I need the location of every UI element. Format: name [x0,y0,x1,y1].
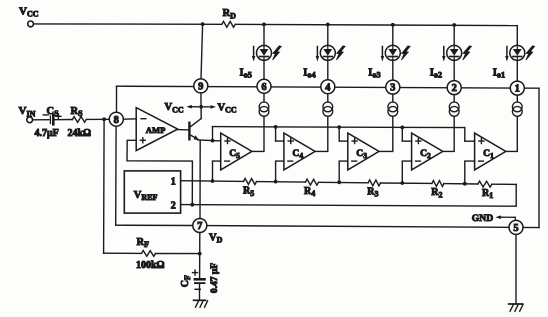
label Io3 [368,67,380,79]
LED D4 [320,45,335,60]
wire signal to C2+ [401,127,403,141]
current source Io5 [259,102,269,116]
svg-text:C4: C4 [292,148,303,160]
wire LED1 to pin [516,60,518,81]
wire R5-R4 [257,181,306,184]
label C1 [483,148,494,160]
label Io1 [493,67,505,79]
wire C1- lead [465,161,475,184]
comparator C1 [475,133,506,170]
label Io4 [303,67,315,79]
label R4 [304,186,315,198]
label 0.47uF [210,263,220,293]
label VREF [134,190,158,202]
node rail LED5 branch [262,22,266,26]
label C5 [229,148,240,160]
svg-text:5: 5 [513,223,518,234]
ground CF [194,300,208,307]
resistor RD [222,21,235,27]
comparator C4 [284,133,315,170]
capacitor CF [195,279,205,283]
node signal C4+ [274,125,278,129]
svg-text:CF: CF [180,275,192,287]
label CF minus [195,288,200,290]
label R3 [367,186,378,198]
label Vcc left [165,102,184,114]
wire pin9 to collector [200,93,202,119]
wire rail to LED3 [392,25,394,46]
label 100k [136,260,165,271]
node emitter [211,139,215,143]
wire pin6 to source [263,93,265,102]
label CF plus [193,270,198,275]
label 4.7uF [35,128,59,139]
wire emitter node to pin7 [199,141,201,219]
node rail LED4 branch [326,23,330,27]
wire source to C3 output [379,116,393,151]
comparator C3 [348,133,379,170]
label C3 plus [352,139,357,144]
wire pin3 to source [392,94,394,102]
svg-text:RS: RS [71,106,84,118]
capacitor CS [50,115,53,124]
wire source to C4 output [315,116,328,151]
wire C2+ lead [402,140,411,142]
wire LED5 to pin [263,60,265,79]
wire to pin7 [116,224,193,226]
label RS [71,106,84,118]
LED4 light flash [336,46,345,60]
node rail-pin9 [201,22,205,26]
svg-text:VCC: VCC [165,102,184,114]
node signal C3+ [337,125,341,129]
wire Vin to Cs [33,119,49,121]
node signal C2+ [400,125,404,129]
label RD [223,8,237,20]
svg-text:AMP: AMP [146,125,166,135]
label Vcc right [218,102,237,114]
pin 1 [510,81,524,95]
comparator C2 [412,133,443,170]
wire Vcc rail left [34,23,222,25]
svg-text:VD: VD [209,232,223,244]
wire C1+ lead [465,140,475,142]
label C3 [356,148,367,160]
resistor R5 [244,179,257,185]
svg-text:24kΩ: 24kΩ [68,128,92,139]
LED2 light flash [463,46,472,60]
node input junction [102,117,106,121]
wire pins row [117,86,540,88]
wire R2-R1 [444,183,478,185]
label AMP plus [140,138,145,143]
label GND [472,213,493,224]
node ladder C1- [463,182,467,186]
label C5 minus [225,160,230,162]
label R5 [243,186,254,198]
wire R3-R2 [381,182,432,184]
node Vref2 feedback [190,203,194,207]
arrow LED5 current [252,47,255,62]
arrow Vcc right [204,105,216,109]
arrow GND [495,215,515,220]
svg-text:C5: C5 [229,148,240,160]
svg-text:2: 2 [452,83,457,94]
wire signal to C1+ [464,128,466,142]
comparator C5 [221,133,252,170]
Vcc label [19,6,39,19]
svg-text:Io3: Io3 [368,67,380,79]
wire pin7 to pin5 [207,226,509,228]
wire C3- lead [339,161,348,182]
label CF [180,275,192,287]
wire C2- lead [402,161,411,183]
resistor R3 [368,180,380,186]
svg-text:7: 7 [197,221,202,232]
svg-text:RF: RF [137,237,150,249]
voltage reference VREF [124,171,180,213]
label R2 [431,187,442,199]
arrow LED1 current [505,47,508,62]
pin 6 [257,79,271,93]
label Io5 [240,67,252,79]
svg-text:1: 1 [515,84,520,95]
svg-text:Io5: Io5 [240,67,252,79]
LED D5 [257,45,272,60]
wire pin5 right [523,226,539,228]
node ladder C3- [337,180,341,184]
wire rail to LED2 [453,25,455,45]
label R1 [482,188,493,200]
wire rail to LED5 [263,24,265,45]
label C5 plus [225,139,230,144]
svg-text:GND: GND [472,213,493,224]
arrow Vcc left [186,105,198,109]
label Vref pin2 [171,200,176,211]
svg-text:9: 9 [198,82,203,93]
svg-text:R1: R1 [482,188,493,200]
svg-text:3: 3 [390,83,395,94]
wire pin8 riser [116,86,118,112]
label AMP minus [141,118,146,120]
label Io2 [430,67,442,79]
LED5 light flash [273,46,282,60]
LED D1 [510,45,525,60]
LED D2 [447,45,462,60]
svg-text:R2: R2 [431,187,442,199]
label C4 minus [288,160,293,162]
svg-text:C1: C1 [483,148,494,160]
transistor Q1 [189,119,201,141]
label C4 [292,148,303,160]
pin 9 [194,79,208,93]
wire signal to C4+ [275,127,277,141]
pin 8 [109,112,123,126]
label C2 plus [416,139,421,144]
svg-text:VCC: VCC [218,102,237,114]
wire right edge down [538,88,540,227]
arrow LED4 current [316,47,319,62]
wire ladder return [181,184,517,206]
svg-text:8: 8 [114,115,119,126]
node ladder C2- [400,181,404,185]
wire signal to C3+ [338,127,340,141]
wire pin7 down [199,233,201,278]
wire pin2 to source [453,95,455,102]
svg-text:VIN: VIN [19,105,36,118]
wire node to RF [104,252,142,254]
Vcc terminal [28,21,34,27]
wire pin1 to source [516,95,518,102]
label C2 minus [416,160,421,162]
pin 4 [321,80,335,94]
label RF [137,237,150,249]
label C1 minus [479,160,484,162]
label Cs plus [56,114,61,119]
Vin terminal [27,117,33,123]
svg-text:RD: RD [223,8,237,20]
label C4 plus [288,139,293,144]
wire AMP+ feedback [127,140,192,204]
label Cs minus [43,114,48,116]
pin 3 [386,80,400,94]
current source Io1 [512,102,522,116]
svg-text:C2: C2 [420,148,431,160]
wire pin5 down [515,234,517,304]
wire input node down [103,119,106,253]
svg-text:4.7μF: 4.7μF [35,128,59,139]
svg-text:Io2: Io2 [430,67,442,79]
LED3 light flash [401,46,410,60]
wire C4- lead [276,161,284,182]
wire R4-R3 [319,181,369,184]
wire rail to LED4 [327,25,329,46]
wire RF to VD [156,253,200,255]
wire Vcc rail right [235,24,517,25]
wire pin4 to source [327,94,329,102]
wire signal bus [213,127,465,128]
svg-text:1: 1 [171,176,176,187]
ground pin5 [509,304,523,311]
pin 2 [447,81,461,95]
label 24k [68,128,92,139]
svg-text:6: 6 [261,82,266,93]
label VD [209,232,223,244]
wire C4+ lead [276,140,284,142]
label Vin [19,105,36,118]
wire CF to ground [199,283,201,300]
arrow LED2 current [442,47,445,62]
op-amp AMP [136,108,178,151]
wire AMP out [178,129,190,131]
svg-text:4: 4 [325,82,331,93]
resistor RF [142,251,156,257]
svg-text:R3: R3 [367,186,378,198]
svg-text:Io4: Io4 [303,67,315,79]
wire pin8 down [115,126,117,225]
wire C5- lead [213,161,221,181]
wire R1 to corner [492,183,516,185]
LED1 light flash [526,46,535,60]
current source Io2 [449,102,459,116]
label CS [47,106,60,118]
wire pin8 to AMP- [123,118,136,120]
wire LED2 to pin [453,60,455,80]
node rail LED3 branch [391,23,395,27]
resistor RS [72,117,86,123]
wire LED3 to pin [392,60,394,80]
current source Io4 [323,102,333,116]
svg-text:C3: C3 [356,148,367,160]
wire LED4 to pin [327,60,329,79]
pin 7 [193,219,207,233]
wire emitter to C5+ [198,140,221,141]
svg-text:VREF: VREF [134,190,158,202]
wire source to C5 output [252,116,264,151]
wire Rs to pin8 [86,118,109,120]
wire signal riser [212,127,214,141]
svg-text:VCC: VCC [19,6,39,19]
wire Vref1 to R5 [181,180,244,183]
label C2 [420,148,431,160]
node VD-RF [198,252,202,256]
node ladder C4- [274,180,278,184]
pin 5 [509,220,523,234]
LED D3 [385,45,400,60]
node rail LED2 branch [452,23,456,27]
svg-text:CS: CS [47,106,60,118]
resistor R2 [432,181,444,187]
wire rail to LED1 [516,26,518,46]
wire source to C1 output [506,116,518,151]
svg-text:0.47 μF: 0.47 μF [210,263,220,293]
label Vref pin1 [171,176,176,187]
svg-text:100kΩ: 100kΩ [136,260,165,271]
node ladder C5- [211,179,215,183]
wire source to C2 output [443,116,454,151]
label AMP [146,125,166,135]
arrow LED3 current [381,47,384,62]
node Vcc collector [199,105,203,109]
label C3 minus [352,160,357,162]
svg-text:Io1: Io1 [493,67,505,79]
svg-text:R5: R5 [243,186,254,198]
wire Cs to Rs [55,119,73,121]
resistor R4 [306,179,319,185]
svg-text:R4: R4 [304,186,315,198]
wire C3+ lead [339,140,348,142]
current source Io3 [388,102,398,116]
wire rail to pin9 [201,24,203,79]
svg-text:2: 2 [171,200,176,211]
label C1 plus [479,139,484,144]
resistor R1 [478,181,492,187]
